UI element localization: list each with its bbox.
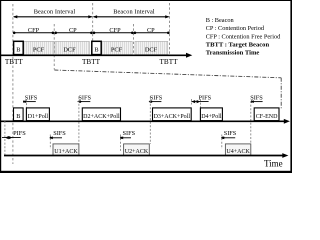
TBTT dashed line 3 (169, 3, 171, 56)
svg-text:CFP : Contention Free Period: CFP : Contention Free Period (206, 33, 281, 40)
svg-text:SIFS: SIFS (78, 94, 91, 101)
svg-text:PCF: PCF (33, 47, 45, 54)
svg-text:TBTT : Target Beacon: TBTT : Target Beacon (206, 42, 270, 49)
top timeline baseline with arrow (0, 53, 192, 58)
svg-text:DCF: DCF (145, 47, 158, 54)
row 2 baseline with arrow (4, 153, 288, 158)
CFP/CP boundary dashed line 1 (53, 24, 55, 70)
svg-text:Beacon Interval: Beacon Interval (34, 9, 76, 16)
frame border (0, 0, 292, 173)
beacon interval arrow 1 (13, 15, 93, 18)
SIFS annotation after B (row 1) (23, 94, 38, 107)
CFP span line 1 (13, 32, 54, 35)
CP span line 2 (134, 32, 170, 35)
svg-text:CF-END: CF-END (256, 114, 278, 120)
box CF-END (254, 108, 279, 121)
PIFS annotation at start (row 2) (2, 121, 26, 155)
box U1+ACK (53, 144, 79, 156)
box D4+Poll (200, 108, 222, 121)
svg-text:B: B (94, 47, 98, 54)
svg-text:D1+Poll: D1+Poll (28, 114, 49, 120)
box PCF 1 (23, 41, 54, 54)
box B (beacon) 1 (14, 41, 24, 54)
box PCF 2 (101, 41, 132, 54)
svg-text:U1+ACK: U1+ACK (54, 149, 78, 155)
SIFS annotation after U1 (row 1) (78, 94, 92, 144)
svg-text:DCF: DCF (63, 47, 76, 54)
svg-text:TBTT: TBTT (82, 58, 101, 66)
CP span line 1 (54, 32, 92, 35)
row 1 baseline with arrow (0, 119, 290, 124)
svg-text:D2+ACK+Poll: D2+ACK+Poll (83, 114, 120, 120)
SIFS annotation before U4 (row 2) (221, 130, 237, 149)
box U4+ACK (225, 144, 250, 156)
box DCF 2 (135, 41, 168, 54)
svg-text:PCF: PCF (111, 47, 123, 54)
box D1+Poll (26, 108, 49, 121)
legend (206, 17, 281, 57)
box DCF 1 (55, 41, 89, 54)
svg-text:SIFS: SIFS (122, 130, 135, 137)
expansion dash-dot diagonal line (54, 70, 281, 78)
box D3+ACK+Poll (153, 108, 192, 121)
svg-text:U2+ACK: U2+ACK (125, 149, 149, 155)
box D2+ACK+Poll (82, 108, 120, 121)
svg-text:Beacon Interval: Beacon Interval (113, 9, 155, 16)
beacon interval arrow 2 (93, 15, 170, 18)
box U2+ACK (124, 144, 150, 156)
SIFS annotation before U1 (row 2) (50, 130, 67, 149)
svg-text:Time: Time (264, 158, 283, 168)
svg-text:B : Beacon: B : Beacon (206, 17, 235, 24)
svg-text:SIFS: SIFS (250, 94, 263, 101)
CFP span line 2 (93, 32, 134, 35)
box B (row 1) (14, 108, 24, 121)
svg-text:D3+ACK+Poll: D3+ACK+Poll (154, 114, 191, 120)
svg-text:U4+ACK: U4+ACK (226, 149, 250, 155)
svg-text:SIFS: SIFS (224, 130, 237, 137)
SIFS annotation before U2 (row 2) (120, 130, 136, 152)
PIFS annotation after D3 (row 1) (191, 94, 211, 107)
svg-text:SIFS: SIFS (53, 130, 66, 137)
svg-text:B: B (16, 113, 20, 120)
CFP/CP boundary dashed line 2 (133, 24, 135, 56)
SIFS annotation after U2 (row 1) (149, 94, 163, 144)
expansion dash-dot vertical line (280, 78, 282, 110)
svg-text:TBTT: TBTT (5, 58, 24, 66)
svg-text:D4+Poll: D4+Poll (201, 114, 222, 120)
svg-text:SIFS: SIFS (150, 94, 163, 101)
svg-text:TBTT: TBTT (160, 58, 179, 66)
TBTT dashed line 2 (92, 3, 94, 56)
SIFS annotation before CF-END (row 1) (250, 94, 263, 144)
svg-text:CP : Contention Period: CP : Contention Period (206, 25, 265, 32)
svg-text:PIFS: PIFS (13, 130, 26, 137)
TBTT dashed line 1 (12, 4, 14, 164)
box B (beacon) 2 (92, 41, 101, 54)
svg-text:B: B (16, 47, 20, 54)
svg-text:Transmission Time: Transmission Time (206, 50, 260, 57)
